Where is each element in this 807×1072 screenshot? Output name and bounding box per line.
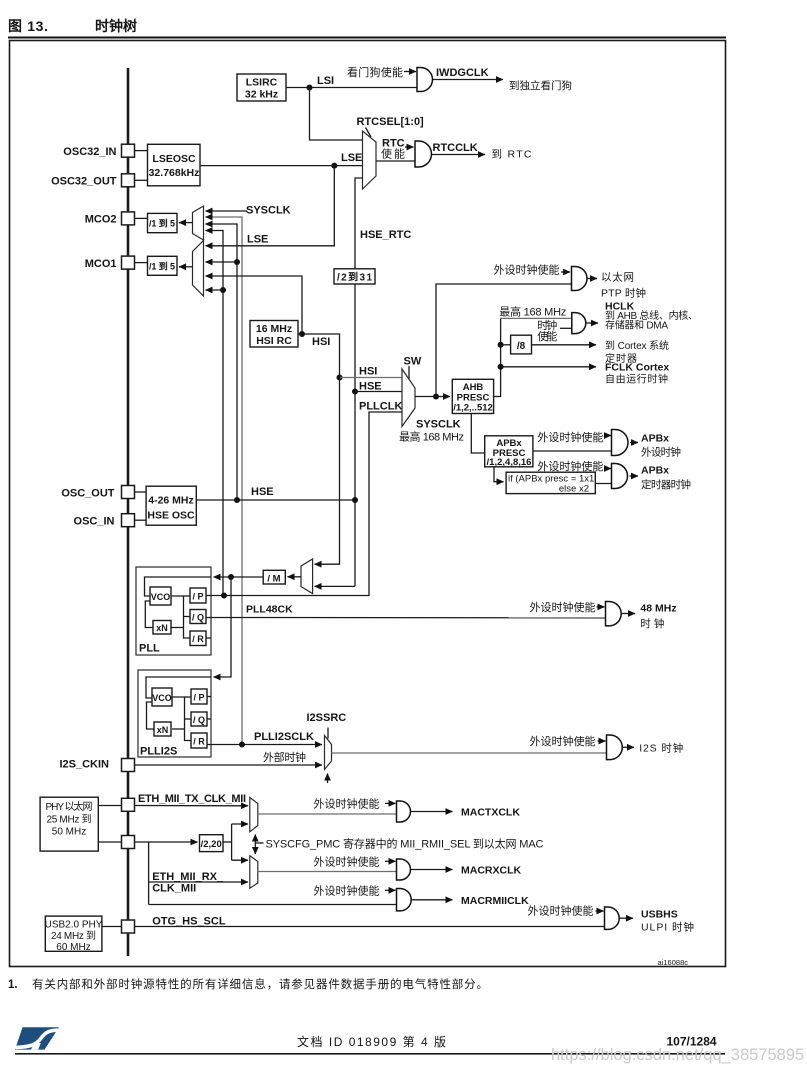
svg-text:HSI: HSI [312, 336, 330, 348]
svg-text:外设时钟: 外设时钟 [641, 446, 681, 459]
svg-text:/ M: / M [267, 573, 280, 584]
wire HCLK output [586, 322, 598, 324]
wire 外部时钟 from I2S_CKIN to mux [135, 764, 323, 766]
box divider /1 到 5 MCO2 [148, 213, 178, 232]
wire APBx down to if box [494, 467, 504, 482]
wire SYSCLK output to AHB PRESC [415, 396, 450, 398]
box divider /8 [501, 335, 532, 354]
box divider /M [263, 570, 285, 584]
wire PLL line into MCO2 [206, 231, 224, 596]
svg-text:HSI RC: HSI RC [256, 335, 292, 347]
pin ETH REF [122, 836, 135, 849]
svg-text:PLL: PLL [139, 643, 160, 655]
svg-text:LSE: LSE [247, 234, 268, 246]
wire APBx2 enable arrow [604, 468, 611, 470]
pin OSC32_IN [63, 144, 134, 158]
svg-text:外设时钟使能: 外设时钟使能 [537, 430, 603, 444]
svg-text:HSE_RTC: HSE_RTC [360, 229, 411, 241]
wire HSE vertical below /2到31 [354, 284, 356, 586]
svg-text:OSC_IN: OSC_IN [74, 516, 115, 528]
box PLL /R [190, 631, 206, 646]
title 图 13. 时钟树 [8, 18, 726, 39]
svg-text:MACTXCLK: MACTXCLK [461, 807, 520, 819]
label 以太网 PTP 时钟 [601, 271, 646, 300]
node HSE wire RTC-divider junction [352, 497, 358, 503]
wire PTP enable arrow [561, 271, 570, 273]
svg-text:/ P: / P [192, 592, 203, 602]
svg-text:/2,20: /2,20 [201, 839, 222, 850]
box APBx PRESC [485, 436, 533, 468]
box PLLI2S VCO [152, 688, 172, 706]
wire RTCSEL select diagonal [366, 128, 372, 138]
label ETH_MII_RX_ CLK_MII [152, 871, 224, 895]
pin USB OTG [122, 920, 135, 933]
wire /M output into PLL [214, 576, 264, 578]
wire APBx PRESC output to gate [533, 450, 612, 452]
wire USB box to pin [102, 926, 122, 928]
svg-text:RTCCLK: RTCCLK [433, 142, 478, 154]
box PLL /P [190, 588, 206, 603]
wire RMII line to MACRMIICLK gate [149, 904, 397, 906]
wire APBx1 enable arrow [604, 435, 611, 437]
svg-text:CLK_MII: CLK_MII [152, 883, 196, 895]
svg-text:存储器和 DMA: 存储器和 DMA [605, 319, 668, 332]
svg-text:FCLK Cortex: FCLK Cortex [605, 362, 669, 374]
svg-text:SYSCFG_PMC 寄存器中的 MII_RMII_SEL: SYSCFG_PMC 寄存器中的 MII_RMII_SEL 到以太网 MAC [266, 837, 544, 851]
svg-text:xN: xN [156, 623, 168, 633]
wire OSC32_IN stub [135, 150, 148, 152]
svg-text:AHB: AHB [463, 382, 484, 393]
node LSI junction [307, 85, 313, 91]
svg-text:外设时钟使能: 外设时钟使能 [314, 855, 380, 869]
wire PLL source mux output to /M [288, 576, 302, 578]
wire MACRX enable arrow [385, 860, 396, 862]
svg-text:外设时钟使能: 外设时钟使能 [314, 797, 380, 811]
pin I2S_CKIN [59, 759, 134, 772]
svg-text:I2S 时钟: I2S 时钟 [639, 742, 683, 755]
svg-text:OSC32_IN: OSC32_IN [63, 146, 116, 158]
svg-text:最高 168 MHz: 最高 168 MHz [399, 430, 464, 444]
main pin bus [127, 68, 130, 956]
svg-text:/ R: / R [193, 736, 205, 746]
wire ETH_MII_RX to bottom mux [149, 881, 248, 883]
node PLL-MCO junction on /P wire [221, 593, 227, 599]
box PLLI2S /Q [191, 712, 207, 726]
wire PLLCLK from /P to SW mux [206, 412, 402, 596]
wire SYSCLK into MCO2 [206, 210, 248, 212]
wire OSC32_OUT stub [135, 179, 148, 181]
svg-text:RTCSEL[1:0]: RTCSEL[1:0] [357, 116, 425, 128]
wire HSI down to PLL input mux [315, 378, 340, 565]
gate 48MHz AND [606, 602, 622, 626]
svg-text:/2到31: /2到31 [337, 271, 372, 284]
wire PHY to TX pin [98, 805, 121, 807]
svg-text:外部时钟: 外部时钟 [263, 750, 306, 764]
svg-text:USBHS: USBHS [641, 909, 678, 921]
svg-text:外设时钟使能: 外设时钟使能 [530, 734, 596, 748]
wire HCLK into gate (gray) [501, 317, 572, 319]
svg-text:时钟: 时钟 [537, 318, 557, 332]
wire LSE into MCO1 [206, 166, 335, 246]
gate RTC AND [415, 141, 432, 167]
node FCLK junction [498, 364, 504, 370]
wire HSI into SW mux [340, 377, 403, 379]
svg-text:50 MHz: 50 MHz [52, 827, 86, 838]
wire MACRMII enable arrow [385, 889, 396, 891]
box PLL xN [153, 621, 171, 635]
svg-text:OSC_OUT: OSC_OUT [61, 488, 114, 500]
wire APBx1 output [630, 442, 638, 444]
svg-text:到独立看门狗: 到独立看门狗 [509, 79, 572, 92]
wire PLL feedback loop [145, 601, 153, 628]
wire SYSCFG select arrows [255, 835, 263, 855]
svg-text:VCO: VCO [151, 592, 171, 602]
box PHY 以太网 [40, 797, 98, 851]
wire MACTX enable arrow [385, 802, 396, 804]
svg-text:LSIRC: LSIRC [246, 77, 278, 89]
box PLL /Q [190, 610, 206, 624]
footer ST logo [15, 1027, 59, 1049]
wire TX mux output (gray) [258, 813, 397, 815]
box LSEOSC 32.768kHz [148, 144, 201, 186]
box LSIRC 32 kHz [237, 74, 286, 101]
pin ETH TX [122, 798, 135, 811]
wire MCO2 mux output [179, 222, 193, 224]
svg-text:/ Q: / Q [192, 613, 204, 623]
svg-text:/ P: / P [193, 693, 204, 703]
svg-text:HSE OSC: HSE OSC [147, 510, 195, 522]
wire LSE from LSEOSC to RTCSEL mux [200, 165, 363, 167]
gate APBx peripheral AND [612, 430, 629, 456]
wire HSE from box [196, 499, 355, 501]
svg-text:ULPI 时钟: ULPI 时钟 [641, 921, 694, 934]
wire PHY to REF pin [98, 841, 121, 843]
svg-text:PTP 时钟: PTP 时钟 [601, 287, 646, 300]
wire SW select [408, 366, 410, 380]
box PLLI2S /R [191, 733, 207, 748]
svg-text:有关内部和外部时钟源特性的所有详细信息，请参见器件数据手册的: 有关内部和外部时钟源特性的所有详细信息，请参见器件数据手册的电气特性部分。 [32, 977, 488, 991]
wire ETH_MII_TX to top mux [135, 805, 249, 807]
svg-text:MCO1: MCO1 [85, 258, 117, 270]
label RTC 使能 [381, 138, 405, 161]
label 到 Cortex 系统 定时器 [605, 339, 669, 365]
box PLLI2S /P [191, 689, 207, 704]
wire PLLI2S VCO to dividers [172, 697, 191, 741]
box 16 MHz HSI RC [250, 321, 298, 348]
wire SYSCLK up to PTP gate [436, 284, 572, 397]
wire 48MHz output [622, 613, 636, 615]
mux PLL source [301, 559, 313, 594]
mux ETH RX [250, 856, 258, 889]
svg-text:LSE: LSE [341, 152, 362, 164]
svg-text:VCO: VCO [152, 693, 172, 703]
wire I2S output [623, 746, 635, 748]
wire AHB output up [494, 318, 501, 396]
svg-text:PHY 以太网: PHY 以太网 [46, 800, 93, 813]
svg-text:1.: 1. [8, 979, 18, 991]
label APBx 外设时钟 [641, 433, 681, 459]
node PLL-MCO1 junction [220, 287, 226, 293]
node HSE-MCO1 junction [234, 259, 240, 265]
box divider /2,20 [200, 835, 224, 852]
wire RTC enable arrow [405, 146, 414, 148]
svg-text:MACRMIICLK: MACRMIICLK [461, 895, 529, 907]
wire LSI branch down to RTCSEL [310, 88, 363, 141]
svg-text:HSE: HSE [251, 486, 274, 498]
wire MACRXCLK output [411, 869, 453, 871]
svg-text:外设时钟使能: 外设时钟使能 [314, 884, 380, 898]
wire HSI from box [298, 334, 340, 378]
node HSI junction at box [299, 331, 305, 337]
svg-text:看门狗使能: 看门狗使能 [347, 65, 403, 79]
mux MCO1 [193, 241, 204, 297]
box PLL VCO [150, 587, 171, 605]
svg-text:LSEOSC: LSEOSC [152, 153, 196, 165]
svg-text:外设时钟使能: 外设时钟使能 [494, 263, 560, 277]
mux RTCSEL [363, 131, 377, 189]
svg-text:48 MHz: 48 MHz [640, 603, 676, 615]
gate APBx timer AND [612, 464, 628, 489]
wire APBx timer output [630, 475, 639, 477]
wire HSE line into MCO2 [206, 224, 238, 500]
svg-text:25 MHz 到: 25 MHz 到 [47, 814, 92, 826]
svg-text:16 MHz: 16 MHz [256, 323, 292, 335]
wire MACRMIICLK output [412, 899, 453, 901]
wire MCO1 mux output [179, 266, 193, 268]
label APBx 定时器时钟 [641, 465, 691, 492]
svg-text:PLLI2S: PLLI2S [140, 746, 177, 758]
svg-text:32.768kHz: 32.768kHz [149, 167, 200, 179]
svg-text:I2SSRC: I2SSRC [307, 712, 347, 724]
wire HSE_RTC into RTCSEL bottom input [355, 178, 363, 269]
wire RTCCLK output [432, 154, 486, 156]
svg-text:SYSCLK: SYSCLK [416, 419, 461, 431]
gate PTP AND [572, 267, 588, 291]
svg-text:/1 到 5: /1 到 5 [149, 261, 175, 272]
node PLLI2SCLK junction [239, 742, 245, 748]
wire RTCSEL output to RTC gate [376, 160, 415, 162]
wire if box output to timer gate [595, 483, 611, 485]
wire RX mux output (gray) [258, 871, 397, 873]
mux MCO2 [193, 206, 204, 240]
svg-text:PLLI2SCLK: PLLI2SCLK [254, 731, 314, 743]
gate I2S AND [607, 735, 623, 760]
wire MCO2 stub [135, 217, 148, 219]
wire HCLK enable stub [560, 327, 572, 329]
wire PTP output [588, 278, 598, 280]
wire OTG_HS_SCL to USBHS gate [135, 926, 605, 928]
svg-text:else x2: else x2 [559, 483, 589, 494]
node SYSCLK junction [433, 394, 439, 400]
pin OSC_OUT [61, 486, 134, 500]
node HSI junction at SW [337, 375, 343, 381]
label 时钟 使能 [537, 318, 557, 343]
svg-text:SYSCLK: SYSCLK [246, 205, 291, 217]
svg-text:到 Cortex 系统: 到 Cortex 系统 [605, 339, 669, 352]
wire HSE down into PLL input mux [315, 585, 356, 587]
svg-text:USB2.0 PHY: USB2.0 PHY [45, 920, 103, 931]
node HSE junction at SW [352, 389, 358, 395]
pin OSC32_OUT [51, 174, 134, 188]
wire PLLI2S feedback loop [147, 702, 155, 729]
box USB2.0 PHY [45, 916, 103, 953]
svg-text:/1 到 5: /1 到 5 [149, 218, 175, 229]
svg-text:ETH_MII_RX_: ETH_MII_RX_ [152, 871, 224, 883]
svg-text:外设时钟使能: 外设时钟使能 [537, 459, 603, 473]
wire /2,20 to bottom mux [232, 859, 248, 861]
wire PLLI2S input routing [146, 677, 211, 698]
svg-text:时钟树: 时钟树 [95, 18, 137, 34]
wire LSI from LSIRC to IWDG gate [286, 87, 417, 89]
wire PLL branch into MCO1 [206, 289, 224, 291]
box AHB PRESC [452, 379, 493, 413]
svg-text:xN: xN [157, 725, 169, 735]
mux I2SSRC [325, 736, 332, 770]
svg-text:I2S_CKIN: I2S_CKIN [59, 759, 109, 771]
wire PLLI2SCLK from /R to I2SSRC mux [207, 744, 322, 746]
wire OSC_OUT stub [135, 491, 147, 493]
svg-text:外设时钟使能: 外设时钟使能 [530, 600, 596, 614]
svg-text:APBx: APBx [641, 465, 669, 477]
svg-text:APBx: APBx [641, 433, 669, 445]
wire HSI into MCO1 [206, 276, 303, 334]
box 4-26 MHz HSE OSC [146, 486, 196, 525]
wire I2S clock to gate (gray) [332, 752, 607, 754]
wire REF vertical branch [148, 842, 150, 905]
box PLL outer [136, 567, 211, 655]
svg-text:24 MHz 到: 24 MHz 到 [51, 930, 96, 942]
label 48 MHz 时钟 [640, 603, 676, 631]
mux SW [402, 369, 415, 427]
pin MCO2 [85, 212, 135, 226]
label FCLK Cortex 自由运行时钟 [605, 362, 669, 386]
svg-text:/1,2,..512: /1,2,..512 [453, 403, 493, 414]
svg-text:/ Q: / Q [193, 715, 205, 725]
svg-text:https://blog.csdn.net/qq_38575: https://blog.csdn.net/qq_38575895 [551, 1046, 804, 1064]
box divider /1 到 5 MCO1 [148, 256, 178, 275]
gate MACRMIICLK AND [397, 889, 412, 911]
gate HCLK AND [572, 313, 586, 334]
wire PLL input routing [145, 577, 212, 596]
wire PLL48CK from /Q to 48MHz gate [206, 617, 606, 619]
svg-text:以太网: 以太网 [601, 271, 634, 284]
svg-text:图 13.: 图 13. [8, 18, 48, 34]
wire /M branch down into PLLI2S [214, 577, 232, 677]
wire I2SSRC select bottom arrow [327, 774, 329, 784]
box PLLI2S outer [138, 670, 211, 757]
wire HSE into SW mux [355, 391, 402, 393]
wire HSE branch into MCO1 [206, 261, 238, 263]
footnote 1 [8, 977, 488, 991]
wire watchdog enable arrow [404, 71, 416, 73]
svg-text:32 kHz: 32 kHz [245, 89, 278, 101]
wire MCO1 stub [135, 262, 148, 264]
svg-text:到 RTC: 到 RTC [492, 149, 532, 161]
wire REF to /2,20 [135, 841, 198, 843]
box divider /2到31 [334, 269, 375, 284]
svg-text:60 MHz: 60 MHz [56, 942, 90, 953]
gate IWDG AND [417, 68, 433, 92]
gate USBHS AND [605, 907, 620, 929]
svg-text:HSE: HSE [359, 381, 382, 393]
diagram frame [10, 41, 726, 967]
wire USBHS enable arrow [596, 910, 604, 912]
svg-text:SW: SW [404, 356, 422, 368]
wire I2SSRC select top [327, 728, 329, 739]
svg-text:/8: /8 [517, 341, 526, 352]
label HCLK block [605, 301, 698, 332]
wire MACTXCLK output [411, 811, 453, 813]
svg-text:使能: 使能 [537, 329, 557, 343]
gate MACRXCLK AND [397, 859, 411, 880]
svg-text:OTG_HS_SCL: OTG_HS_SCL [152, 916, 226, 928]
node /8 junction [498, 342, 504, 348]
wire USBHS output [620, 917, 634, 919]
wire FCLK output [501, 366, 596, 368]
svg-text:文档 ID 018909 第 4 版: 文档 ID 018909 第 4 版 [297, 1034, 446, 1049]
node LSE junction [331, 163, 337, 169]
wire /2,20 to top mux [232, 823, 248, 825]
footer rule [15, 1053, 725, 1055]
wire I2S enable arrow [598, 740, 606, 742]
wire /2,20 output bracket [223, 841, 232, 843]
svg-text:/1,2,4,8,16: /1,2,4,8,16 [487, 457, 532, 468]
label USBHS ULPI 时钟 [641, 909, 694, 934]
box if APBx presc [506, 472, 595, 494]
svg-text:最高 168 MHz: 最高 168 MHz [499, 305, 566, 319]
svg-text:LSI: LSI [317, 75, 334, 87]
svg-text:ETH_MII_TX_CLK_MII: ETH_MII_TX_CLK_MII [138, 793, 246, 805]
wire OSC_IN stub [135, 519, 147, 521]
svg-text:MACRXCLK: MACRXCLK [461, 865, 521, 877]
wire IWDGCLK output [433, 79, 503, 81]
wire PLL VCO to dividers [171, 596, 190, 638]
svg-text:IWDGCLK: IWDGCLK [436, 67, 489, 79]
wire /8 output to Cortex timer [532, 344, 597, 346]
node HSE wire MCO junction [234, 497, 240, 503]
wire AHB PRESC down to APBx PRESC [471, 414, 484, 454]
pin OSC_IN [74, 514, 135, 528]
gate MACTXCLK AND [397, 801, 411, 822]
svg-text:/ R: / R [192, 634, 204, 644]
wire 48MHz enable arrow [597, 606, 605, 608]
svg-text:PLLCLK: PLLCLK [359, 401, 402, 413]
mux ETH TX [250, 798, 258, 832]
wire PLLI2S /P stub [207, 696, 211, 698]
svg-text:外设时钟使能: 外设时钟使能 [528, 904, 594, 918]
svg-text:自由运行时钟: 自由运行时钟 [605, 373, 668, 386]
box PLLI2S xN [154, 722, 171, 736]
svg-text:PLL48CK: PLL48CK [246, 604, 293, 616]
wire PLLI2S line into MCO2 (gray) [206, 217, 243, 745]
wire PLLI2S /Q stub [207, 718, 211, 720]
node /M output branch [228, 574, 234, 580]
wire PLL /R stub [206, 637, 211, 639]
svg-text:HSI: HSI [359, 366, 377, 378]
svg-text:ai16088c: ai16088c [658, 958, 689, 967]
svg-text:OSC32_OUT: OSC32_OUT [51, 176, 117, 188]
svg-text:MCO2: MCO2 [85, 214, 117, 226]
svg-text:4-26 MHz: 4-26 MHz [148, 495, 194, 507]
pin MCO1 [85, 256, 135, 270]
svg-text:定时器时钟: 定时器时钟 [641, 478, 691, 491]
